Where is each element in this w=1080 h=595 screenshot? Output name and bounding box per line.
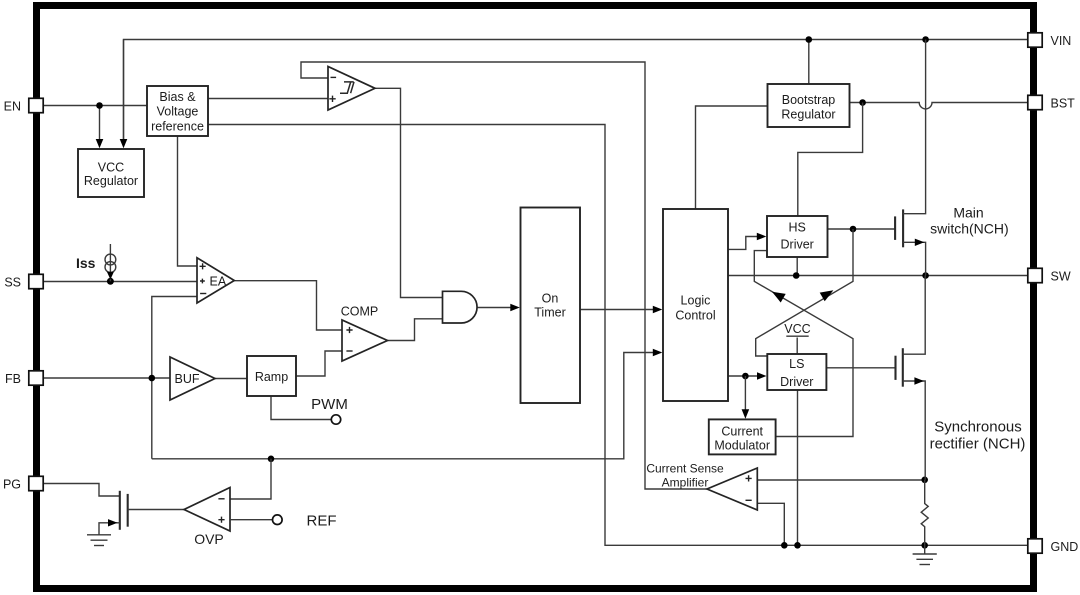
node sense junction — [921, 477, 928, 484]
wire FB line — [43, 377, 170, 379]
transistor M3 power-good switch — [99, 491, 184, 535]
arrowhead FB rail to Logic Control — [653, 349, 663, 357]
svg-text:Synchronous: Synchronous — [934, 419, 1022, 436]
node LS input junction — [742, 373, 749, 380]
wire Bias to schmitt + — [208, 98, 328, 100]
wire BST line with hop — [850, 103, 1028, 109]
svg-text:Driver: Driver — [780, 375, 813, 389]
comparator U1 schmitt — [328, 67, 375, 111]
pin GND — [1028, 539, 1078, 554]
node HS gate junction — [850, 226, 857, 233]
svg-text:BUF: BUF — [175, 372, 200, 386]
node LS ground junction — [794, 542, 801, 549]
wire EA output to COMP + — [234, 281, 342, 330]
wire LS gate sense diagonal to HS Driver input — [754, 251, 853, 367]
wire PG line to M3 drain — [43, 484, 120, 497]
node SW switch junction — [922, 272, 929, 279]
node FB junction — [149, 375, 156, 382]
wire main switch gate node down to Current Modulator — [776, 367, 853, 437]
arrowhead VIN to VCC Regulator — [120, 139, 128, 148]
ground symbol at M3 source — [87, 535, 111, 546]
block Bootstrap Regulator — [768, 84, 850, 127]
wire HS Driver output to main switch gate — [828, 228, 896, 230]
svg-text:PWM: PWM — [311, 396, 348, 413]
svg-text:GND: GND — [1051, 540, 1079, 554]
buffer U4 BUF — [170, 357, 215, 400]
transistor M2 synchronous rectifier — [896, 276, 926, 480]
wire COMP output to AND gate — [388, 319, 443, 341]
label Current Sense Amplifier — [646, 462, 724, 490]
arrowhead on HS-sense diagonal — [820, 290, 834, 301]
wire SW line — [728, 275, 1028, 277]
wire On Timer output to Logic Control — [580, 309, 654, 311]
svg-text:Main: Main — [953, 205, 983, 221]
wire Logic Control to HS Driver input — [728, 237, 758, 250]
svg-text:Ramp: Ramp — [255, 370, 288, 384]
arrowhead on LS-sense diagonal — [772, 292, 786, 303]
svg-text:Voltage: Voltage — [157, 105, 199, 119]
node SS junction — [107, 278, 114, 285]
wire BST supply to HS Driver top — [798, 103, 863, 217]
wire VIN to Bootstrap — [808, 40, 810, 85]
node VIN main-switch junction — [922, 36, 929, 43]
wire LS Driver output to rectifier gate — [826, 367, 895, 369]
svg-text:REF: REF — [307, 513, 337, 530]
node BST junction — [859, 99, 866, 106]
block Logic Control — [663, 209, 728, 401]
node FB rail junction — [268, 456, 275, 463]
pin SS — [4, 274, 43, 289]
block HS Driver — [767, 216, 828, 257]
node SW HS junction — [793, 272, 800, 279]
wire Ramp to PWM terminal — [271, 396, 331, 420]
node VIN bootstrap junction — [806, 36, 813, 43]
svg-text:OVP: OVP — [194, 531, 224, 547]
svg-text:Regulator: Regulator — [781, 108, 835, 122]
svg-text:Logic: Logic — [681, 293, 711, 307]
svg-text:Regulator: Regulator — [84, 174, 138, 188]
op-amp U5 OVP comparator — [184, 488, 230, 532]
transistor M1 main switch — [895, 40, 926, 276]
wire HS Driver bottom to SW — [796, 257, 798, 276]
wire Logic Control to LS Driver input — [728, 375, 758, 377]
ground symbol at GND rail — [913, 545, 937, 564]
svg-text:COMP: COMP — [341, 305, 379, 319]
resistor R1 — [921, 480, 928, 546]
block On Timer — [521, 208, 581, 404]
wire BUF output to Ramp — [215, 378, 247, 380]
svg-text:FB: FB — [5, 372, 21, 386]
svg-text:Bias &: Bias & — [159, 90, 196, 104]
svg-text:Modulator: Modulator — [714, 439, 770, 453]
op-amp U6 current sense amplifier — [707, 468, 757, 510]
svg-text:SS: SS — [4, 276, 21, 290]
svg-text:rectifier (NCH): rectifier (NCH) — [930, 436, 1026, 453]
wire OVP - tap — [230, 459, 271, 499]
svg-text:reference: reference — [151, 119, 204, 133]
svg-text:switch(NCH): switch(NCH) — [930, 221, 1009, 237]
arrowhead to Current Modulator — [742, 409, 750, 419]
pin BST — [1028, 95, 1075, 110]
wire LS Driver bottom to GND rail — [797, 390, 799, 545]
svg-text:LS: LS — [789, 357, 804, 371]
wire VIN to VCC Regulator — [123, 40, 125, 141]
svg-text:SW: SW — [1051, 270, 1071, 284]
svg-text:PG: PG — [3, 478, 21, 492]
svg-text:Timer: Timer — [534, 306, 565, 320]
svg-text:Control: Control — [675, 309, 715, 323]
wire Bias bottom to EA + — [178, 136, 198, 266]
pin VIN — [1028, 33, 1072, 48]
svg-text:EN: EN — [4, 100, 21, 114]
wire SS line — [43, 281, 197, 283]
arrowhead Logic to HS Driver — [757, 233, 767, 241]
arrowhead Logic to LS Driver — [757, 372, 767, 380]
node CSA ground junction — [781, 542, 788, 549]
AND gate U7 — [443, 291, 478, 323]
svg-text:Current Sense: Current Sense — [646, 462, 724, 476]
wire VIN rail — [124, 40, 1028, 144]
wire LS input to Current Modulator — [744, 376, 746, 410]
svg-text:BST: BST — [1051, 97, 1076, 111]
wire AND output to On Timer — [478, 307, 512, 309]
block Bias & Voltage reference — [147, 86, 208, 136]
svg-text:VIN: VIN — [1051, 34, 1072, 48]
arrowhead EN to VCC Regulator — [96, 139, 104, 148]
svg-text:EA: EA — [210, 275, 227, 289]
wire CSA + input to sense node — [757, 479, 924, 481]
wire EN line — [43, 105, 147, 107]
node EN junction — [96, 102, 103, 109]
wire FB vertical to EA - — [152, 297, 197, 459]
wire CSA output to schmitt - feedback — [301, 62, 707, 489]
wire VCC stub to LS Driver — [796, 338, 798, 355]
pin PG — [3, 476, 43, 491]
svg-text:Bootstrap: Bootstrap — [782, 93, 836, 107]
svg-text:HS: HS — [789, 221, 806, 235]
label Synchronous rectifier (NCH) — [930, 419, 1026, 453]
wire Bootstrap left to Logic Control top — [696, 106, 768, 209]
wire CSA - input to GND rail — [757, 503, 784, 545]
svg-text:Amplifier: Amplifier — [662, 476, 709, 490]
pin EN — [4, 98, 44, 113]
block VCC Regulator — [78, 149, 144, 197]
wire FB rail to Logic Control — [152, 353, 661, 459]
svg-text:On: On — [542, 292, 559, 306]
arrowhead On Timer to Logic Control — [653, 306, 663, 314]
svg-text:Driver: Driver — [781, 238, 814, 252]
arrowhead AND to On Timer — [510, 304, 520, 312]
terminal PWM — [331, 415, 340, 424]
block LS Driver — [767, 354, 826, 390]
terminal REF — [273, 515, 283, 525]
svg-text:Iss: Iss — [76, 255, 96, 271]
wire HS gate sense diagonal to LS Driver input — [756, 229, 853, 356]
op-amp U3 COMP — [342, 320, 388, 361]
pin FB — [5, 371, 43, 386]
wire OVP + to REF terminal — [230, 519, 273, 521]
block Ramp — [247, 356, 296, 396]
block Current Modulator — [709, 419, 776, 454]
svg-text:VCC: VCC — [98, 160, 124, 174]
pin SW — [1028, 268, 1071, 283]
op-amp U2 EA error amplifier — [197, 258, 234, 303]
svg-text:Current: Current — [721, 424, 763, 438]
wire EN to VCC Regulator — [99, 106, 101, 141]
label Main switch(NCH) — [930, 205, 1009, 237]
svg-text:VCC: VCC — [784, 322, 810, 336]
wire Bias ground rail to GND pin — [208, 125, 1028, 546]
node resistor ground junction — [921, 542, 928, 549]
current source Iss — [105, 244, 116, 281]
wire schmitt output to AND gate — [375, 88, 443, 297]
label VCC with underline — [784, 322, 810, 336]
wire Ramp output to COMP - — [296, 351, 342, 376]
